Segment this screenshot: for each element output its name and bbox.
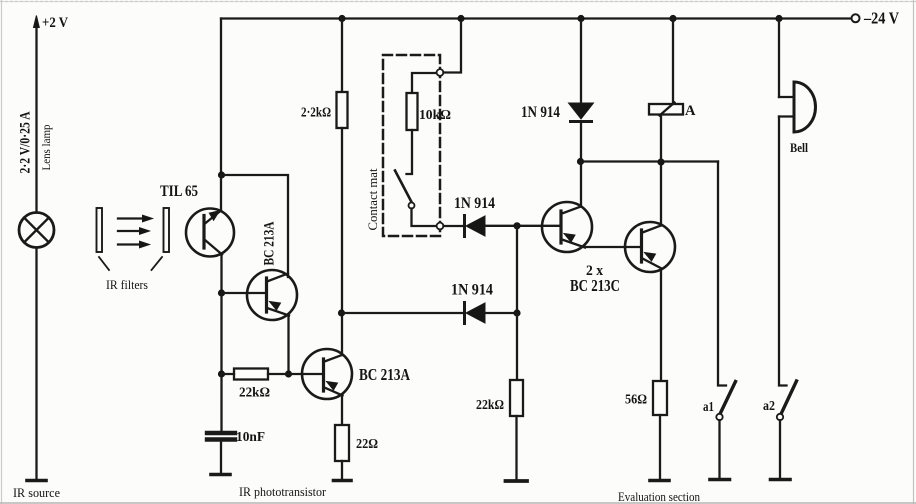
svg-text:Bell: Bell [790,141,808,155]
svg-text:2·2kΩ: 2·2kΩ [301,106,331,121]
wire a1 branch down [718,162,726,386]
wire 10k to switch [407,130,413,174]
ground (56 Ohm) [650,479,669,483]
svg-text:22kΩ: 22kΩ [239,386,270,401]
resistor R4 10kOhm [407,93,418,130]
svg-text:IR filters: IR filters [106,277,148,292]
IR ray arrow 1 [118,215,153,222]
svg-text:1N 914: 1N 914 [521,104,560,121]
terminal contact mat top [437,69,444,76]
transistor Q3 BC213A [289,313,353,425]
relay coil A [649,103,683,116]
node rail/2.2k junction [338,15,345,22]
node collector TIL65 junction [218,171,225,178]
svg-text:22kΩ: 22kΩ [476,397,504,412]
scan border left [1,0,3,504]
node 2.2k / D2 junction [338,309,345,316]
resistor R3 2.2kOhm [337,92,348,128]
svg-text:Lens lamp: Lens lamp [41,124,53,170]
wire rail to D3 [580,19,582,104]
svg-text:IR source: IR source [13,485,60,500]
node rail / contact mat junction [457,15,464,22]
ground (IR source) [27,479,46,483]
wire terminal to D1 [444,225,464,227]
wire a2 to ground [779,420,781,477]
svg-text:BC 213A: BC 213A [359,365,410,384]
wire 2.2k down to diode node [341,128,343,313]
node rail / relay junction [669,15,676,22]
resistor R6 56Ohm [653,381,667,415]
diode D1 1N914 [465,216,486,237]
bell [779,82,815,132]
svg-text:a1: a1 [703,400,714,415]
wire Q4 collector up [580,162,582,207]
wire TIL65 top node to Q2 collector [222,175,289,277]
switch a1 lever [720,382,736,415]
svg-text:a2: a2 [763,399,775,414]
IR filter bar 2 [164,208,170,252]
svg-text:1N 914: 1N 914 [454,195,495,212]
node relay / Q5 collector junction [657,158,664,165]
node 22k left junction [218,370,225,377]
IR ray arrow 3 [118,241,150,248]
switch a1 contact [716,414,722,420]
wire D2 right [485,312,517,314]
IR filters pointer right [152,257,163,270]
capacitor C1 10nF [207,431,235,435]
node D3 / relay wire junction [577,158,584,165]
wire D3 to collector node [580,123,582,162]
svg-text:BC 213C: BC 213C [570,276,620,295]
diode D2 1N914 [465,303,486,324]
node D2 / 22k junction [513,309,520,316]
wire node down to 22k [516,313,518,380]
svg-text:22Ω: 22Ω [356,436,378,451]
resistor R5 22kOhm vertical [510,380,523,416]
terminal contact mat bottom [437,223,444,230]
wire rail down to TIL65 node [220,19,222,176]
wire relay to junction [660,115,662,162]
IR ray arrow 2 [118,228,150,235]
wire contact mat terminal to rail [444,19,462,73]
top -24V rail [221,17,851,19]
transistor Q5 BC213C [625,162,675,381]
IR filters pointer left [99,257,109,270]
wire 56Ohm to ground [659,415,661,478]
resistor R2 22Ohm [335,425,349,461]
ground (capacitor) [211,473,230,477]
wire switch to terminal [412,209,437,227]
ground (22 Ohm) [334,479,352,483]
lamp LP1 (IR source) [19,213,54,248]
wire junction down to 22k node [220,293,222,374]
scan border right [913,0,915,504]
ground (a2) [771,478,791,482]
wire node down to capacitor [220,374,222,431]
switch S1 contact [409,203,415,209]
node rail / bell junction [775,15,782,22]
svg-text:2·2 V/0·25 A: 2·2 V/0·25 A [18,111,34,173]
contact mat dashed enclosure [383,55,440,236]
node Q2 emitter / Q3 base junction [285,370,292,377]
resistor R1 22kOhm horizontal [234,369,268,380]
svg-text:IR phototransistor: IR phototransistor [239,484,327,499]
node D1 / 22k junction [513,222,520,229]
wire 22k left stub [222,373,289,375]
wire Q4 emitter to Q5 base [585,246,640,248]
svg-text:Contact mat: Contact mat [365,168,380,230]
svg-text:–24 V: –24 V [863,9,899,28]
node +2V supply arrow [35,25,37,212]
scan border top [0,1,916,3]
wire rail to bell [778,19,780,98]
wire 22Ohm to ground [341,461,343,478]
node TIL65 emitter / Q2 base junction [218,289,225,296]
wire a1 to ground [718,420,720,477]
wire capacitor to ground [220,442,222,472]
transistor Q2 BC213A [222,270,298,374]
wire 22k to ground [515,416,517,479]
transistor Q4 BC213C [517,202,592,252]
wire node down to D2 node [516,226,518,313]
ground (a1) [710,478,730,482]
svg-text:56Ω: 56Ω [625,392,647,407]
svg-text:10kΩ: 10kΩ [419,108,451,123]
switch S1 contact mat lever [395,171,412,203]
wire lamp to ground [35,248,37,479]
svg-text:A: A [685,103,696,119]
wire rail to relay [672,19,674,105]
wire junction to a1 branch [581,160,719,162]
switch a2 lever [781,381,797,414]
terminal -24V [852,14,860,22]
phototransistor TIL65 [186,175,234,293]
node rail / D3 junction [577,15,584,22]
wire bell to a2 [779,117,787,386]
svg-text:+2 V: +2 V [42,15,68,31]
svg-text:TIL 65: TIL 65 [160,183,198,200]
switch a2 contact [777,414,783,420]
svg-text:10nF: 10nF [236,429,265,444]
scan border bottom [0,502,916,504]
wire D2 left [342,312,464,314]
ground (22k) [506,479,528,483]
IR filter bar 1 [97,208,103,252]
diode D3 1N914 vertical [569,103,594,122]
svg-text:BC 213A: BC 213A [262,221,278,265]
wire D1 to Q4 base [485,225,560,227]
wire rail to 2.2k [341,19,343,93]
wire 10k top hook [412,73,436,93]
svg-text:1N 914: 1N 914 [451,282,493,299]
svg-text:Evaluation section: Evaluation section [618,489,700,504]
